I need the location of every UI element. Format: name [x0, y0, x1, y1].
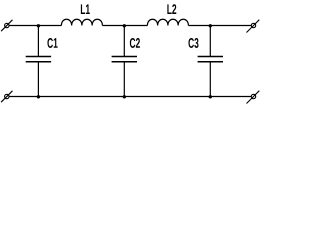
junction node top C1: [37, 24, 40, 27]
terminal port top-right: [247, 20, 260, 33]
junction node top C2: [123, 24, 126, 27]
inductor L1: [61, 4, 102, 25]
junction node bottom C3: [209, 95, 212, 98]
capacitor C2: [112, 26, 140, 97]
wire top-right segment: [188, 25, 251, 27]
inductor L2: [147, 4, 188, 25]
terminal port bottom-left: [1, 91, 12, 102]
wire top-middle segment: [102, 25, 147, 27]
junction node bottom C1: [37, 95, 40, 98]
wire bottom rail: [9, 96, 252, 98]
capacitor C3: [188, 26, 223, 97]
terminal port top-left: [1, 20, 12, 31]
junction node top C3: [209, 24, 212, 27]
terminal port bottom-right: [247, 91, 260, 104]
capacitor C1: [26, 26, 58, 97]
wire top-left segment: [9, 25, 62, 27]
junction node bottom C2: [123, 95, 126, 98]
